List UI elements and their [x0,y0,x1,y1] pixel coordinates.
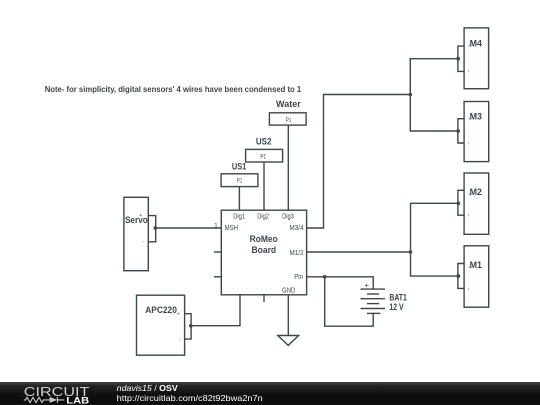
M1 terminal bracket [458,264,464,289]
CircuitLab logo resistor and diode glyph [24,397,65,403]
svg-text:+: + [468,265,471,270]
junction node at M2 terminal [457,202,461,206]
junction node at M4 terminal [456,57,460,61]
svg-text:M2: M2 [470,187,482,197]
wire node A to M3 [410,95,458,132]
svg-text:http://circuitlab.com/c82t92bw: http://circuitlab.com/c82t92bwa2n7n [117,394,263,403]
wire RoMeo M1/2 to node B [307,251,411,253]
svg-text:M4: M4 [470,38,482,48]
wire node B to M1 [411,252,458,276]
svg-text:+: + [468,117,471,122]
svg-text:+: + [468,192,471,197]
RoMeo left stub pin row3 [215,276,222,278]
RoMeo bottom stub pin [263,295,265,301]
wire node A to M4 [410,59,458,95]
svg-text:US1: US1 [232,162,246,172]
wire RoMeo GND pin to ground [287,295,289,336]
svg-text:US2: US2 [256,137,272,147]
motor M2 box [464,173,489,234]
junction node at APC220 terminal [189,324,193,328]
svg-text:+: + [364,281,369,290]
junction node C (PIn / battery) [323,275,327,279]
US1 connector P1 box [221,174,258,187]
svg-text:M1: M1 [470,260,482,270]
svg-text:LAB: LAB [66,395,89,405]
motor M4 box [464,28,489,89]
wire node B to M2 [411,203,458,252]
svg-text:Water: Water [276,99,301,109]
wire node C to BAT1 positive [325,277,374,289]
svg-text:12 V: 12 V [389,302,403,312]
svg-text:M3/4: M3/4 [290,225,304,232]
junction node at M3 terminal [456,129,460,133]
svg-text:P1: P1 [286,117,292,124]
RoMeo left stub pin row2 [215,251,222,253]
svg-text:P1: P1 [237,178,243,185]
battery BAT1 [361,289,386,313]
svg-text:Dig1: Dig1 [233,214,245,221]
wire Servo to RoMeo MSH [155,227,221,229]
svg-text:M1/2: M1/2 [290,250,304,257]
Water connector P1 box [269,113,306,125]
Servo box [124,197,148,270]
junction node at Servo terminal [154,226,158,230]
wire APC220 to RoMeo bottom pin [191,295,240,326]
svg-text:GND: GND [282,287,295,294]
svg-text:+: + [468,43,471,48]
svg-text:1: 1 [214,223,218,230]
svg-text:P1: P1 [260,153,266,160]
svg-text:+: + [177,312,180,318]
svg-text:Dig3: Dig3 [282,214,294,221]
motor M1 box [464,246,489,307]
M4 terminal bracket [458,46,464,71]
footer bar [0,382,540,405]
wire RoMeo M3/4 to node A [307,95,411,229]
junction node A (M3/M4 split) [409,93,413,97]
junction node B (M1/M2 split) [409,250,413,254]
svg-text:+: + [139,213,142,219]
M2 terminal bracket [458,190,464,215]
M3 terminal bracket [458,119,464,143]
wire Water P1 to RoMeo Dig3 [287,125,289,210]
svg-text:ndavis15 / OSV: ndavis15 / OSV [117,384,179,393]
motor M3 box [464,102,489,162]
svg-text:RoMeo: RoMeo [250,234,278,245]
ground [278,336,299,346]
junction node at M1 terminal [457,274,461,278]
svg-text:APC220: APC220 [145,305,177,315]
US2 connector P1 box [246,149,283,162]
Servo terminal bracket [148,216,155,242]
svg-text:Servo: Servo [125,215,148,225]
wire RoMeo PIn to node C [307,276,325,278]
APC220 terminal bracket [185,314,192,339]
wire US2 P1 to RoMeo Dig2 [263,162,265,210]
APC220 box [137,295,185,355]
svg-text:PIn: PIn [294,274,303,281]
wire US1 P1 to RoMeo Dig1 [238,187,240,211]
RoMeo Board U1 box [221,210,306,295]
svg-text:Dig2: Dig2 [257,214,269,221]
svg-text:Board: Board [252,245,277,256]
svg-text:MSH: MSH [225,225,238,232]
svg-text:Note- for simplicity, digital: Note- for simplicity, digital sensors' 4… [45,84,302,94]
wire BAT1 negative return to node C [325,277,374,326]
svg-text:M3: M3 [470,112,482,122]
